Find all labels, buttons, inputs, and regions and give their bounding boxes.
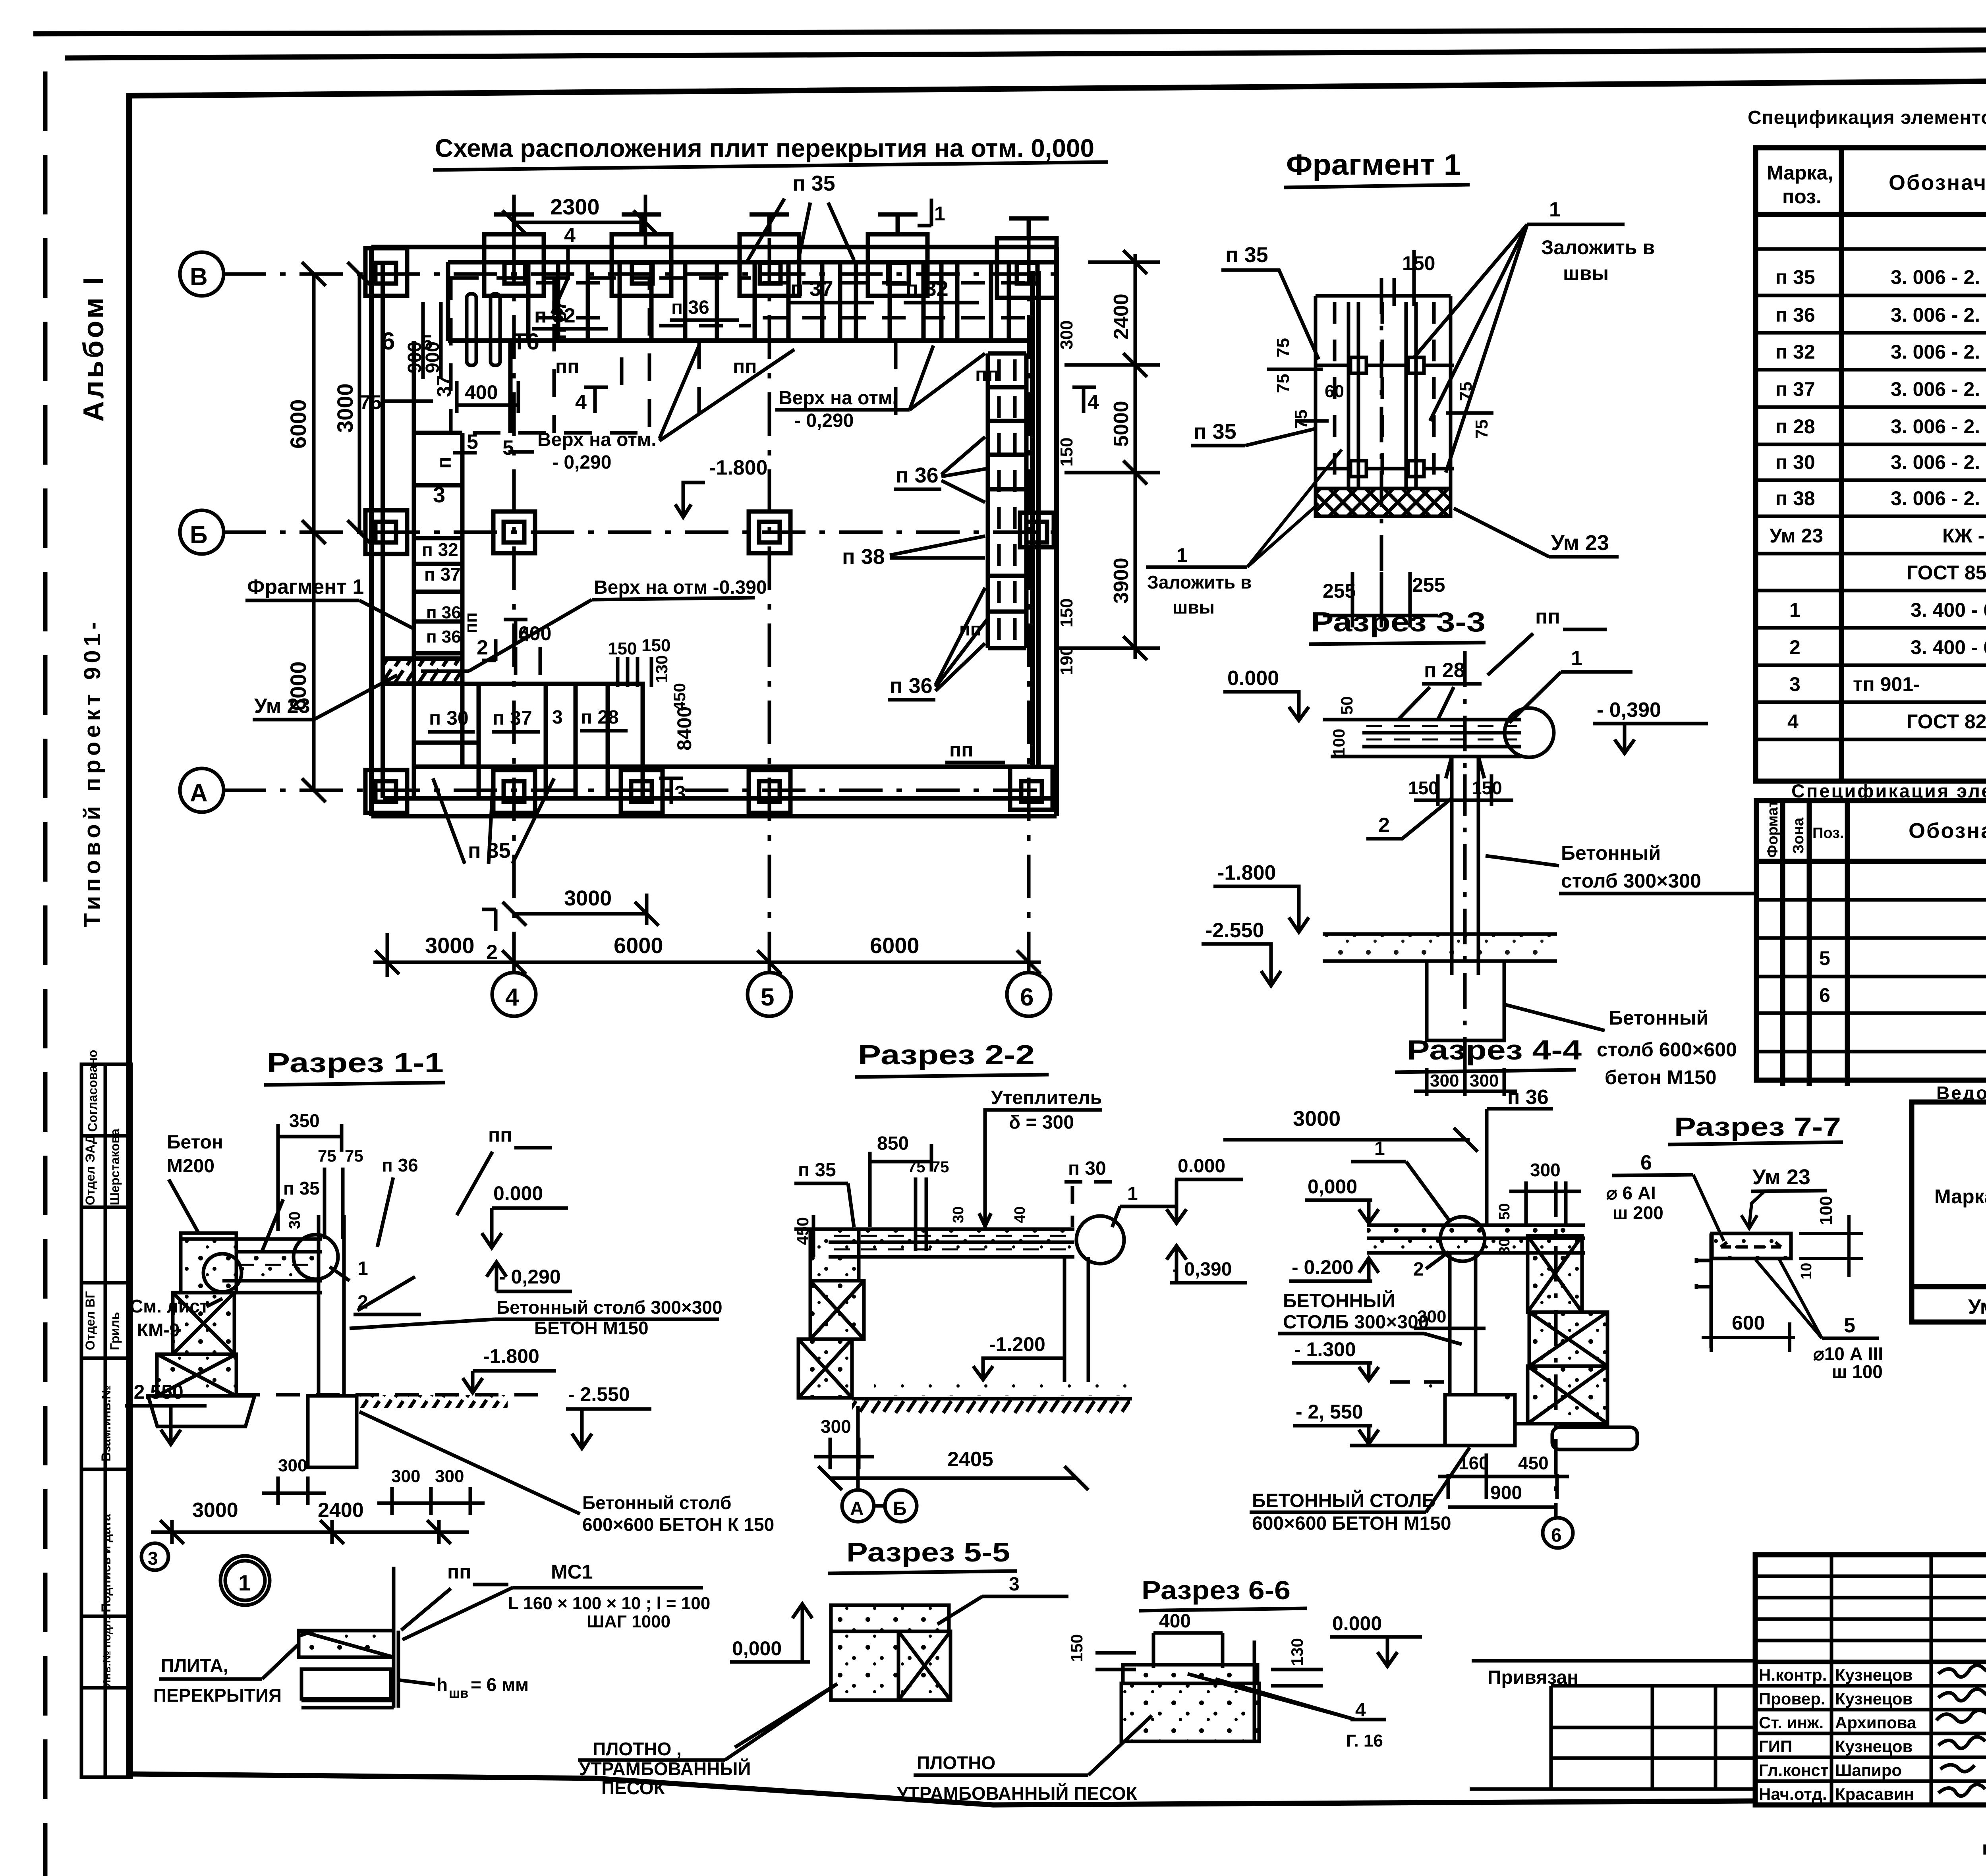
svg-text:600: 600	[1732, 1312, 1765, 1334]
svg-text:Фрагмент 1: Фрагмент 1	[1286, 148, 1461, 181]
left L profile	[1696, 1233, 1711, 1348]
svg-text:6000: 6000	[614, 933, 663, 958]
svg-text:50: 50	[1337, 696, 1356, 715]
svg-text:пп: пп	[733, 355, 757, 378]
svg-text:0.000: 0.000	[1178, 1156, 1225, 1177]
svg-text:п 35: п 35	[798, 1160, 836, 1181]
right band plates	[988, 353, 1026, 648]
svg-text:Гл.конст: Гл.конст	[1759, 1761, 1829, 1779]
svg-text:УТРАМБОВАННЫЙ ПЕСОК: УТРАМБОВАННЫЙ ПЕСОК	[897, 1783, 1138, 1804]
svg-text:6: 6	[1640, 1151, 1652, 1174]
svg-text:400: 400	[465, 381, 498, 403]
svg-text:п 36: п 36	[890, 674, 933, 698]
svg-text:- 0.200: - 0.200	[1292, 1256, 1354, 1278]
svg-text:1: 1	[1571, 647, 1582, 670]
sidebar bottom cells	[81, 1064, 131, 1777]
svg-text:БЕТОННЫЙ: БЕТОННЫЙ	[1283, 1290, 1395, 1312]
svg-text:37: 37	[433, 375, 455, 397]
svg-text:п 36: п 36	[1507, 1086, 1549, 1109]
beam section	[1712, 1233, 1791, 1258]
svg-text:Марка,: Марка,	[1767, 162, 1833, 184]
svg-text:h: h	[437, 1674, 448, 1695]
svg-text:5: 5	[467, 430, 478, 454]
svg-text:100: 100	[1329, 729, 1348, 757]
svg-text:4: 4	[1787, 710, 1799, 733]
svg-text:БЕТОННЫЙ СТОЛБ: БЕТОННЫЙ СТОЛБ	[1252, 1490, 1435, 1511]
svg-text:Разрез 5-5: Разрез 5-5	[846, 1537, 1010, 1567]
svg-text:150: 150	[1472, 778, 1502, 798]
circled 3	[141, 1543, 168, 1570]
svg-text:30: 30	[1496, 1238, 1513, 1255]
svg-text:- 0,390: - 0,390	[1597, 699, 1661, 722]
svg-text:Провер.: Провер.	[1759, 1689, 1825, 1708]
svg-text:Подпись и дата: Подпись и дата	[99, 1514, 113, 1612]
svg-text:3000: 3000	[564, 886, 612, 910]
svg-text:6: 6	[1819, 984, 1830, 1006]
svg-text:ш 200: ш 200	[1613, 1202, 1663, 1223]
svg-text:ПЛОТНО: ПЛОТНО	[917, 1752, 995, 1773]
svg-text:Обозначение: Обозначение	[1889, 171, 1986, 195]
svg-text:150: 150	[1408, 778, 1439, 798]
svg-text:п 35: п 35	[792, 172, 835, 195]
sheet frame top line	[65, 48, 1986, 58]
svg-text:КЖ - 52: КЖ - 52	[1942, 525, 1986, 547]
bottom-left plate group	[414, 684, 643, 798]
svg-text:швы: швы	[1563, 262, 1609, 284]
svg-text:30: 30	[950, 1206, 967, 1223]
svg-text:5000: 5000	[1110, 401, 1133, 447]
svg-text:Шапиро: Шапиро	[1835, 1761, 1902, 1779]
svg-text:6000: 6000	[870, 933, 920, 958]
svg-text:СТОЛБ 300×300: СТОЛБ 300×300	[1283, 1312, 1429, 1333]
leaders 4 / Г 16	[1188, 1674, 1386, 1720]
left dim chain 6000/6000	[302, 262, 371, 802]
svg-text:пп: пп	[555, 355, 579, 378]
plate section	[299, 1567, 398, 1708]
svg-text:850: 850	[877, 1133, 909, 1154]
svg-text:0.000: 0.000	[493, 1182, 543, 1204]
svg-text:п 28: п 28	[1424, 659, 1465, 682]
svg-text:3: 3	[552, 707, 563, 728]
page left dashed border	[43, 71, 48, 1876]
svg-text:4: 4	[1355, 1700, 1366, 1721]
svg-text:130: 130	[652, 655, 671, 683]
svg-text:Отдел ЭАД: Отдел ЭАД	[83, 1135, 97, 1205]
svg-text:ГИП: ГИП	[1759, 1737, 1792, 1756]
section mark 1 top	[918, 199, 931, 226]
svg-text:Бетонный столб 300×300: Бетонный столб 300×300	[496, 1297, 723, 1318]
svg-text:0,000: 0,000	[732, 1637, 782, 1660]
svg-text:6: 6	[1551, 1525, 1562, 1546]
svg-text:⌀ 6 АI: ⌀ 6 АI	[1606, 1183, 1656, 1203]
svg-text:2: 2	[1413, 1259, 1424, 1280]
svg-text:6: 6	[1020, 984, 1034, 1011]
svg-text:Марка элемента: Марка элемента	[1934, 1185, 1986, 1208]
svg-text:Верх на отм -0.390: Верх на отм -0.390	[594, 577, 767, 598]
svg-text:-2.550: -2.550	[1206, 919, 1264, 942]
svg-text:п 30: п 30	[429, 707, 469, 729]
axis 4 line	[512, 238, 516, 973]
svg-text:А: А	[850, 1498, 864, 1519]
svg-text:Разрез 2-2: Разрез 2-2	[858, 1039, 1035, 1070]
svg-text:30: 30	[286, 1212, 303, 1229]
svg-text:3000: 3000	[332, 383, 357, 433]
svg-text:300: 300	[1057, 320, 1076, 349]
svg-text:3: 3	[674, 782, 686, 805]
svg-text:150: 150	[641, 636, 670, 655]
svg-text:4: 4	[505, 984, 519, 1011]
svg-text:Схема расположения плит пер: Схема расположения плит перекрытия на от…	[435, 134, 1094, 162]
svg-text:п 35: п 35	[1775, 266, 1815, 288]
svg-text:300: 300	[435, 1467, 464, 1486]
svg-text:пп: пп	[1535, 605, 1560, 628]
svg-text:150: 150	[1402, 252, 1435, 274]
svg-text:75: 75	[1273, 374, 1293, 393]
foundation pier	[1445, 1395, 1515, 1446]
svg-text:п: п	[433, 457, 455, 469]
svg-text:Поз.: Поз.	[1812, 825, 1844, 841]
svg-text:Ум 23: Ум 23	[1770, 525, 1823, 547]
svg-text:А: А	[190, 780, 208, 807]
svg-text:4: 4	[564, 224, 576, 247]
top plate band divisions	[448, 262, 1009, 341]
svg-text:4: 4	[575, 391, 587, 414]
svg-text:п 28: п 28	[581, 707, 619, 728]
svg-text:пп: пп	[447, 1561, 471, 1583]
svg-text:Красавин: Красавин	[1835, 1785, 1914, 1803]
svg-text:2400: 2400	[1110, 293, 1133, 340]
axis circle 6	[1007, 973, 1051, 1016]
svg-text:0.000: 0.000	[1332, 1612, 1382, 1635]
svg-text:300: 300	[1470, 1071, 1499, 1090]
svg-text:10: 10	[1798, 1263, 1815, 1280]
2-2 right levels	[1167, 1156, 1247, 1283]
svg-text:3. 006 - 2. вып.II-2: 3. 006 - 2. вып.II-2	[1891, 487, 1986, 510]
svg-text:Согласовано: Согласовано	[85, 1050, 100, 1132]
svg-text:1: 1	[1789, 599, 1801, 621]
svg-text:п 36: п 36	[426, 603, 461, 622]
svg-text:350: 350	[289, 1110, 320, 1131]
svg-text:Б: Б	[893, 1498, 907, 1519]
svg-text:Альбом I: Альбом I	[78, 274, 110, 422]
svg-text:Привязан: Привязан	[1488, 1667, 1578, 1688]
svg-text:3. 400 - 6/76: 3. 400 - 6/76	[1911, 636, 1986, 658]
drawing	[831, 1605, 950, 1700]
svg-text:-1.800: -1.800	[483, 1345, 539, 1367]
left band plates	[382, 341, 510, 767]
svg-text:6: 6	[381, 328, 395, 355]
svg-text:ШАГ 1000: ШАГ 1000	[587, 1612, 670, 1631]
svg-text:-1.800: -1.800	[709, 456, 767, 479]
axis circle 5	[748, 973, 791, 1016]
svg-text:75: 75	[908, 1158, 925, 1176]
svg-text:5: 5	[1844, 1314, 1855, 1337]
small embed plates	[1315, 357, 1454, 477]
svg-text:3900: 3900	[1110, 558, 1133, 604]
svg-text:Заложить в: Заложить в	[1541, 236, 1655, 259]
slab band	[1367, 1225, 1585, 1253]
svg-text:50: 50	[1496, 1203, 1513, 1220]
svg-text:п 35: п 35	[1225, 243, 1268, 267]
svg-text:Взам.инв.№: Взам.инв.№	[99, 1385, 113, 1461]
svg-text:300: 300	[391, 1467, 420, 1486]
svg-text:Разрез 3-3: Разрез 3-3	[1311, 606, 1486, 637]
left pier	[798, 1229, 864, 1398]
svg-text:0,000: 0,000	[1308, 1175, 1357, 1198]
slab band	[181, 1239, 322, 1293]
svg-text:п 35: п 35	[1194, 420, 1236, 444]
svg-text:п 37: п 37	[493, 707, 532, 729]
svg-text:- 2, 550: - 2, 550	[1296, 1401, 1363, 1423]
axis circle В	[180, 252, 224, 296]
ground line & hatch	[1323, 934, 1557, 961]
svg-text:150: 150	[608, 639, 637, 658]
svg-text:Бетонный: Бетонный	[1561, 842, 1661, 864]
svg-text:ПЛОТНО ,: ПЛОТНО ,	[593, 1739, 682, 1759]
svg-text:190: 190	[1057, 646, 1076, 675]
svg-text:п 28: п 28	[1775, 415, 1815, 438]
svg-text:3. 006 - 2. вып.II-2: 3. 006 - 2. вып.II-2	[1891, 266, 1986, 288]
svg-text:450: 450	[670, 683, 689, 711]
svg-text:300: 300	[1430, 1071, 1459, 1090]
svg-text:Типовой проект 901-: Типовой проект 901-	[79, 618, 105, 927]
svg-text:п 37: п 37	[424, 564, 461, 585]
svg-text:Кузнецов: Кузнецов	[1835, 1666, 1913, 1684]
section mark 4 pair	[1072, 387, 1096, 413]
svg-text:3. 006 - 2. вып.II-2: 3. 006 - 2. вып.II-2	[1891, 415, 1986, 438]
axis circle Б	[180, 510, 224, 554]
svg-text:2400: 2400	[318, 1499, 364, 1522]
svg-text:1: 1	[357, 1258, 368, 1279]
column	[1450, 1253, 1476, 1395]
svg-text:5: 5	[421, 331, 433, 354]
bottom crosshatch band Ум23	[1316, 488, 1451, 516]
section mark 2 lower	[482, 909, 496, 931]
svg-text:столб 300×300: столб 300×300	[1561, 870, 1701, 892]
svg-text:150: 150	[1057, 438, 1076, 467]
svg-text:Нач.отд.: Нач.отд.	[1759, 1785, 1827, 1803]
svg-text:3. 006 - 2. вып.II-2: 3. 006 - 2. вып.II-2	[1891, 341, 1986, 363]
svg-text:- 0,290: - 0,290	[499, 1266, 561, 1288]
svg-text:п 36: п 36	[896, 463, 939, 487]
svg-text:Кузнецов: Кузнецов	[1835, 1737, 1913, 1756]
svg-text:2300: 2300	[550, 194, 600, 219]
svg-text:п 32: п 32	[422, 539, 458, 560]
svg-text:6000: 6000	[286, 399, 311, 449]
svg-text:пп: пп	[949, 739, 973, 761]
svg-text:8400: 8400	[673, 706, 695, 751]
svg-text:300: 300	[1530, 1160, 1561, 1180]
svg-text:75: 75	[359, 391, 382, 413]
svg-text:150: 150	[1057, 598, 1076, 627]
svg-text:3000: 3000	[425, 933, 475, 958]
axis circle А	[180, 768, 224, 812]
ground dashed	[236, 1393, 544, 1397]
svg-text:ш 100: ш 100	[1832, 1361, 1883, 1382]
svg-text:75: 75	[931, 1158, 949, 1176]
svg-text:75: 75	[345, 1146, 363, 1165]
svg-text:2: 2	[1789, 636, 1801, 658]
svg-text:Ум 23: Ум 23	[1968, 1295, 1986, 1318]
svg-text:Разрез 7-7: Разрез 7-7	[1674, 1112, 1841, 1141]
svg-text:КМ-9: КМ-9	[137, 1320, 180, 1340]
ground	[852, 1397, 1132, 1401]
svg-text:130: 130	[1288, 1638, 1306, 1666]
А Б circles	[842, 1490, 874, 1522]
svg-text:тп 901-: тп 901-	[1853, 673, 1920, 695]
svg-text:швы: швы	[1173, 597, 1215, 618]
svg-text:Верх на отм.: Верх на отм.	[779, 388, 898, 409]
svg-text:Кузнецов: Кузнецов	[1835, 1689, 1913, 1708]
svg-text:5: 5	[502, 436, 514, 459]
svg-text:3: 3	[148, 1548, 158, 1569]
svg-text:2: 2	[486, 941, 498, 964]
svg-text:60: 60	[1325, 382, 1344, 401]
svg-text:- 0,290: - 0,290	[552, 452, 611, 473]
svg-text:Т6: Т6	[512, 329, 539, 355]
svg-text:ГОСТ 8240-72: ГОСТ 8240-72	[1907, 710, 1986, 733]
foundation block	[1427, 961, 1504, 1040]
axis circle 4	[492, 973, 536, 1016]
svg-text:столб 600×600: столб 600×600	[1597, 1038, 1737, 1061]
svg-text:600×600 БЕТОН М150: 600×600 БЕТОН М150	[1252, 1513, 1451, 1534]
svg-text:100: 100	[1816, 1196, 1836, 1225]
column shaft	[1446, 757, 1484, 975]
svg-text:- 0,390: - 0,390	[1173, 1259, 1232, 1280]
axis А dash-dot line	[222, 789, 1057, 792]
slab band	[1362, 720, 1521, 757]
axis line + circled 6	[1554, 1181, 1558, 1517]
svg-text:Разрез 1-1: Разрез 1-1	[267, 1047, 444, 1078]
section mark 2 upper	[482, 639, 496, 661]
svg-text:п 37: п 37	[1775, 378, 1815, 400]
svg-text:бетон М150: бетон М150	[1605, 1066, 1717, 1089]
svg-text:450: 450	[1518, 1453, 1549, 1473]
svg-text:- 0,290: - 0,290	[794, 410, 854, 431]
svg-text:3. 006 - 2. вып.II-2: 3. 006 - 2. вып.II-2	[1891, 304, 1986, 326]
svg-text:ПЕСОК: ПЕСОК	[601, 1778, 665, 1798]
svg-text:М200: М200	[167, 1156, 214, 1177]
svg-text:Спецификация элементов к сх: Спецификация элементов к схеме расположе…	[1748, 107, 1986, 128]
svg-text:ГОСТ 8540-72: ГОСТ 8540-72	[1907, 562, 1986, 584]
svg-text:-1.200: -1.200	[989, 1333, 1045, 1355]
svg-text:п 36: п 36	[382, 1155, 418, 1175]
svg-text:= 6 мм: = 6 мм	[471, 1674, 529, 1695]
svg-text:п 30: п 30	[1775, 451, 1815, 473]
svg-text:Верх на отм.: Верх на отм.	[537, 429, 657, 450]
svg-text:Инв.№ подл.: Инв.№ подл.	[100, 1617, 113, 1688]
svg-text:Гриль: Гриль	[108, 1312, 122, 1350]
svg-text:-2.550: -2.550	[127, 1381, 184, 1403]
svg-text:1: 1	[934, 203, 945, 225]
bottom wall	[371, 814, 1057, 818]
big circled node 1	[220, 1556, 270, 1605]
svg-text:75: 75	[1472, 419, 1491, 439]
svg-text:5: 5	[1819, 947, 1830, 969]
svg-text:поз.: поз.	[1782, 185, 1822, 208]
svg-text:Г. 16: Г. 16	[1346, 1731, 1383, 1751]
svg-text:Отдел ВГ: Отдел ВГ	[83, 1291, 97, 1350]
svg-text:Бетонный столб: Бетонный столб	[582, 1492, 731, 1513]
svg-text:L 160 × 100 × 10 ; l = 100: L 160 × 100 × 10 ; l = 100	[508, 1594, 710, 1613]
svg-text:3. 400 - 6/76: 3. 400 - 6/76	[1911, 599, 1986, 621]
svg-text:0.000: 0.000	[1227, 667, 1279, 690]
axis 5 line	[768, 238, 771, 973]
mid columns	[365, 248, 1054, 813]
top dim 2300	[502, 195, 657, 246]
stair block dashed top-left	[451, 278, 649, 433]
axis Б dash-dot line	[222, 531, 1057, 534]
svg-text:- 1.300: - 1.300	[1294, 1338, 1356, 1361]
svg-text:75: 75	[318, 1146, 336, 1165]
signatures squiggles	[1936, 1665, 1986, 1796]
svg-text:900: 900	[1490, 1482, 1522, 1504]
svg-text:копировал Ерёменко: копировал Ерёменко	[1982, 1838, 1986, 1859]
top columns	[484, 214, 1057, 298]
right dim chain	[1057, 250, 1160, 660]
svg-text:п 38: п 38	[1775, 487, 1815, 510]
top outer wall line	[371, 245, 1057, 249]
svg-text:В: В	[190, 263, 208, 291]
svg-text:1: 1	[1127, 1183, 1138, 1204]
left pier blocks	[181, 1233, 236, 1293]
svg-text:ПЕРЕКРЫТИЯ: ПЕРЕКРЫТИЯ	[153, 1685, 282, 1706]
svg-text:Ум 23: Ум 23	[254, 695, 310, 718]
svg-text:3000: 3000	[192, 1499, 238, 1522]
svg-text:400: 400	[1159, 1611, 1191, 1632]
svg-text:См. лист: См. лист	[130, 1296, 209, 1316]
bottom dims 3000 6000 6000	[373, 933, 1041, 977]
svg-text:Ст. инж.: Ст. инж.	[1759, 1713, 1824, 1732]
svg-text:п 35: п 35	[283, 1178, 320, 1199]
svg-text:255: 255	[1412, 574, 1445, 596]
drawing: slab + mass	[1121, 1641, 1259, 1741]
svg-text:п 38: п 38	[842, 545, 885, 569]
svg-text:Бетон: Бетон	[167, 1132, 223, 1153]
svg-text:3. 006 - 2. вып.II-2: 3. 006 - 2. вып.II-2	[1891, 451, 1986, 473]
left annex cells	[1470, 1661, 1755, 1789]
svg-text:3: 3	[1009, 1574, 1020, 1595]
svg-text:пп: пп	[461, 612, 481, 633]
svg-text:3000: 3000	[1293, 1107, 1341, 1131]
right outer wall	[1054, 247, 1059, 816]
right column + foundation	[308, 1215, 357, 1467]
svg-text:1: 1	[1549, 198, 1561, 221]
svg-text:5: 5	[761, 984, 774, 1011]
svg-text:-1.800: -1.800	[1217, 861, 1276, 884]
svg-text:40: 40	[1012, 1206, 1028, 1223]
svg-text:Разрез 6-6: Разрез 6-6	[1142, 1575, 1291, 1605]
svg-text:МС1: МС1	[551, 1561, 593, 1583]
svg-text:Н.контр.: Н.контр.	[1759, 1666, 1827, 1684]
svg-text:Зона: Зона	[1790, 817, 1807, 854]
svg-text:шв: шв	[449, 1686, 468, 1701]
svg-text:δ = 300: δ = 300	[1009, 1112, 1074, 1133]
svg-text:1: 1	[238, 1570, 251, 1595]
small slots	[467, 294, 476, 365]
slab band	[829, 1229, 1074, 1257]
svg-text:1: 1	[1177, 544, 1188, 566]
svg-text:п 36: п 36	[426, 627, 461, 647]
svg-text:300: 300	[278, 1456, 307, 1475]
svg-text:Б: Б	[190, 521, 208, 549]
svg-text:2405: 2405	[947, 1448, 993, 1471]
svg-text:Формат: Формат	[1764, 800, 1781, 858]
svg-text:п 36: п 36	[1775, 304, 1815, 326]
svg-text:2: 2	[1378, 814, 1390, 837]
svg-text:Ум 23: Ум 23	[1752, 1165, 1810, 1189]
svg-text:Обозначение: Обозначение	[1909, 819, 1986, 843]
